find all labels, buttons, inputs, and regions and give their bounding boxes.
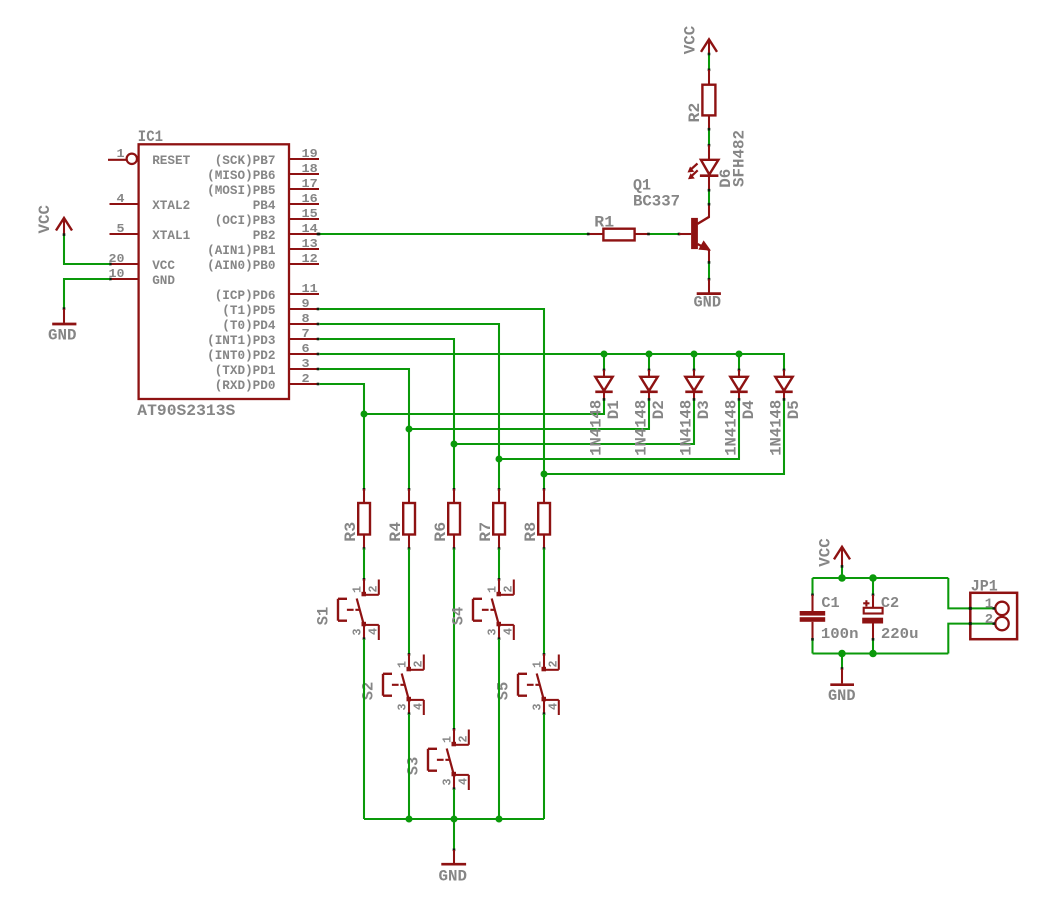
IC1 pin 17 (MOSI)PB5 bbox=[289, 188, 319, 190]
svg-text:3: 3 bbox=[351, 629, 365, 636]
svg-text:D4: D4 bbox=[740, 400, 758, 419]
svg-text:8: 8 bbox=[302, 312, 310, 326]
joints collector bbox=[708, 189, 711, 192]
LED D6 SFH482 bbox=[708, 145, 710, 160]
wire rail to C1 bbox=[811, 578, 813, 595]
wire bus to D4 bbox=[738, 354, 740, 370]
svg-text:5: 5 bbox=[117, 222, 125, 236]
IC1 AT90S2313 body bbox=[139, 144, 289, 399]
diode D3 1N4148 bbox=[693, 369, 696, 372]
svg-text:JP1: JP1 bbox=[971, 577, 998, 595]
svg-text:GND: GND bbox=[694, 294, 722, 312]
IC1 pin 7 (INT1)PD3 bbox=[289, 338, 319, 340]
svg-text:4: 4 bbox=[117, 192, 125, 206]
wire IC pin 14 PB2 to R1 bbox=[320, 233, 589, 235]
junction D5 branch bbox=[541, 471, 548, 478]
resistor R2 bbox=[702, 85, 715, 116]
junction diode bus D2 bbox=[646, 351, 653, 358]
capacitor C2 polarized bbox=[872, 594, 875, 597]
svg-text:VCC: VCC bbox=[36, 205, 54, 234]
diode D4 1N4148 bbox=[738, 369, 741, 372]
svg-text:SFH482: SFH482 bbox=[731, 130, 749, 187]
diode D1 1N4148 bbox=[603, 369, 606, 372]
joint PB2 wire ends bbox=[318, 233, 321, 236]
svg-text:S3: S3 bbox=[405, 757, 423, 776]
svg-text:100n: 100n bbox=[821, 626, 859, 643]
svg-text:20: 20 bbox=[109, 252, 125, 266]
wire PD5 pin9 to R8 column bbox=[320, 309, 545, 489]
svg-text:(AIN0)PB0: (AIN0)PB0 bbox=[207, 258, 276, 273]
svg-text:(T0)PD4: (T0)PD4 bbox=[222, 318, 275, 333]
svg-text:XTAL1: XTAL1 bbox=[152, 228, 190, 243]
wire VCC to IC pin 20 bbox=[64, 234, 110, 264]
svg-text:1: 1 bbox=[117, 147, 125, 161]
wire bus to D1 bbox=[603, 354, 605, 370]
wire R2 to D6 bbox=[708, 129, 710, 145]
wire R6 to S3 bbox=[453, 549, 455, 730]
wire R3 to S1 bbox=[363, 549, 365, 580]
svg-text:D2: D2 bbox=[650, 400, 668, 419]
svg-text:R1: R1 bbox=[594, 213, 614, 231]
IC1 pin 14 PB2 bbox=[289, 233, 319, 235]
wire R1 to Q1 base bbox=[649, 233, 679, 235]
svg-text:2: 2 bbox=[502, 586, 516, 593]
svg-text:S1: S1 bbox=[315, 607, 333, 626]
junction diode bus D1 bbox=[601, 351, 608, 358]
svg-text:(OCI)PB3: (OCI)PB3 bbox=[215, 213, 276, 228]
D6 emission arrow 2 bbox=[690, 170, 698, 177]
joints JP1 pins bbox=[993, 607, 996, 610]
wire PD3 pin7 to R6 column bbox=[320, 339, 455, 489]
svg-text:4: 4 bbox=[502, 628, 516, 635]
svg-text:D3: D3 bbox=[695, 400, 713, 419]
IC1 pin 19 (SCK)PB7 bbox=[289, 158, 319, 160]
wire R4 to S2 bbox=[408, 549, 410, 655]
svg-text:R8: R8 bbox=[522, 522, 540, 542]
wire R8 to S5 bbox=[543, 549, 545, 655]
transistor Q1 BC337 bbox=[691, 218, 698, 249]
IC1 pin 13 (AIN1)PB1 bbox=[289, 248, 319, 250]
wire C1 to bottom rail bbox=[811, 640, 813, 654]
svg-text:RESET: RESET bbox=[152, 153, 190, 168]
junction D2 branch bbox=[406, 426, 413, 433]
joints R1 right bbox=[647, 233, 650, 236]
GND symbol Q1 bbox=[708, 279, 710, 292]
junction bottom bus bbox=[406, 816, 413, 823]
svg-text:D1: D1 bbox=[605, 400, 623, 419]
joints D6 anode bbox=[708, 128, 711, 131]
svg-text:1: 1 bbox=[531, 661, 545, 668]
top rail bbox=[813, 577, 949, 579]
svg-text:1N4148: 1N4148 bbox=[768, 400, 786, 456]
svg-text:17: 17 bbox=[302, 177, 318, 191]
junction diode bus D4 bbox=[736, 351, 743, 358]
connector JP1 box bbox=[970, 593, 1017, 639]
svg-text:1: 1 bbox=[985, 597, 993, 613]
svg-text:R4: R4 bbox=[387, 521, 405, 541]
junction top rail C1-GND bbox=[838, 574, 846, 582]
wire bus to D3 bbox=[693, 354, 695, 370]
IC1 pin 2 (RXD)PD0 bbox=[289, 383, 319, 385]
svg-text:3: 3 bbox=[531, 704, 545, 711]
svg-text:(T1)PD5: (T1)PD5 bbox=[222, 303, 275, 318]
GND symbol right bbox=[841, 667, 844, 670]
bottom bus bbox=[364, 818, 544, 820]
junction bottom rail GND bbox=[838, 650, 846, 658]
wire IC pin 10 to GND bbox=[64, 279, 110, 309]
svg-text:4: 4 bbox=[547, 703, 561, 710]
svg-text:4: 4 bbox=[412, 703, 426, 710]
svg-text:R7: R7 bbox=[477, 522, 495, 542]
bottom rail bbox=[813, 652, 949, 654]
svg-text:13: 13 bbox=[302, 237, 318, 251]
svg-text:BC337: BC337 bbox=[633, 192, 680, 210]
svg-text:2: 2 bbox=[412, 661, 426, 668]
resistor R6 bbox=[453, 488, 456, 491]
diode D5 1N4148 bbox=[783, 369, 786, 372]
svg-text:3: 3 bbox=[486, 629, 500, 636]
resistor R3 bbox=[363, 488, 366, 491]
svg-text:(MISO)PB6: (MISO)PB6 bbox=[207, 168, 276, 183]
svg-text:19: 19 bbox=[302, 147, 318, 161]
svg-text:AT90S2313S: AT90S2313S bbox=[137, 402, 235, 420]
svg-text:18: 18 bbox=[302, 162, 318, 176]
svg-text:16: 16 bbox=[302, 192, 318, 206]
wire PD2 pin6 diode bus bbox=[320, 354, 785, 370]
wire VCC to top rail bbox=[841, 566, 843, 578]
JP1 pin 2 circle bbox=[995, 617, 1008, 630]
wire D5 branch bbox=[544, 399, 784, 474]
svg-text:IC1: IC1 bbox=[138, 128, 163, 146]
switch S5 bbox=[543, 653, 546, 656]
resistor R4 bbox=[408, 488, 411, 491]
svg-text:S4: S4 bbox=[450, 606, 468, 625]
svg-text:2: 2 bbox=[302, 372, 310, 386]
wire S1 to bus bbox=[363, 639, 365, 819]
svg-text:4: 4 bbox=[367, 628, 381, 635]
svg-text:GND: GND bbox=[152, 273, 175, 288]
svg-text:1: 1 bbox=[396, 661, 410, 668]
svg-text:R2: R2 bbox=[686, 103, 704, 123]
IC1 pin 1 RESET bbox=[108, 159, 126, 161]
svg-text:VCC: VCC bbox=[682, 25, 700, 54]
junction bottom bus bbox=[451, 816, 458, 823]
D6 emission arrow 1 bbox=[690, 164, 698, 171]
resistor R7 bbox=[498, 488, 501, 491]
wire rail to C2 bbox=[872, 578, 874, 595]
svg-text:6: 6 bbox=[302, 342, 310, 356]
joints R2 top bbox=[708, 53, 711, 56]
svg-text:R6: R6 bbox=[432, 522, 450, 542]
IC1 pin 4 XTAL2 bbox=[110, 203, 139, 205]
svg-text:D5: D5 bbox=[785, 400, 803, 419]
junction D1 branch bbox=[361, 411, 368, 418]
svg-text:(ICP)PD6: (ICP)PD6 bbox=[215, 288, 276, 303]
svg-text:2: 2 bbox=[985, 612, 993, 628]
svg-text:220u: 220u bbox=[881, 626, 919, 643]
svg-text:1N4148: 1N4148 bbox=[723, 400, 741, 456]
GND symbol left bbox=[63, 307, 66, 310]
svg-text:(SCK)PB7: (SCK)PB7 bbox=[215, 153, 276, 168]
joints emitter bbox=[708, 261, 711, 264]
svg-text:15: 15 bbox=[302, 207, 318, 221]
IC1 pin 18 (MISO)PB6 bbox=[289, 173, 319, 175]
VCC symbol top bbox=[701, 39, 717, 52]
junction top rail C2 bbox=[869, 574, 877, 582]
svg-text:GND: GND bbox=[48, 326, 77, 344]
IC1 pin 3 (TXD)PD1 bbox=[289, 368, 319, 370]
svg-text:7: 7 bbox=[302, 327, 310, 341]
diode D2 1N4148 bbox=[648, 369, 651, 372]
svg-text:1: 1 bbox=[486, 586, 500, 593]
VCC symbol left bbox=[56, 218, 72, 231]
capacitor C1 bbox=[811, 594, 814, 597]
joint VCC left bbox=[63, 233, 66, 236]
svg-text:(INT1)PD3: (INT1)PD3 bbox=[207, 333, 276, 348]
IC1 pin 11 (ICP)PD6 bbox=[289, 293, 319, 295]
wire R7 to S4 bbox=[498, 549, 500, 580]
wire D3 branch bbox=[454, 399, 694, 444]
svg-text:14: 14 bbox=[302, 222, 318, 236]
wire S2 to bus bbox=[408, 714, 410, 819]
wire S3 to bus bbox=[453, 789, 455, 819]
svg-text:(TXD)PD1: (TXD)PD1 bbox=[215, 363, 276, 378]
svg-text:XTAL2: XTAL2 bbox=[152, 198, 190, 213]
resistor R1 bbox=[603, 229, 634, 241]
wire PD1 pin3 to R4 column bbox=[320, 369, 410, 489]
wire S4 to bus bbox=[498, 639, 500, 819]
svg-text:R3: R3 bbox=[342, 522, 360, 542]
wire PD0 pin2 to R3 column bbox=[320, 384, 365, 489]
svg-text:9: 9 bbox=[302, 297, 310, 311]
wire S5 to bus bbox=[543, 714, 545, 819]
svg-text:11: 11 bbox=[302, 282, 318, 296]
VCC symbol right bbox=[834, 547, 850, 560]
IC1 pin 8 (T0)PD4 bbox=[289, 323, 319, 325]
JP1 pin 1 circle bbox=[995, 602, 1008, 615]
wire GND right bbox=[841, 654, 843, 669]
IC1 pin 12 (AIN0)PB0 bbox=[289, 263, 319, 265]
wire D4 branch bbox=[499, 399, 739, 459]
svg-text:10: 10 bbox=[109, 267, 125, 281]
wire D6 to Q1 collector bbox=[708, 190, 710, 204]
switch S3 bbox=[453, 728, 456, 731]
svg-text:2: 2 bbox=[457, 736, 471, 743]
svg-text:(AIN1)PB1: (AIN1)PB1 bbox=[207, 243, 276, 258]
svg-text:(RXD)PD0: (RXD)PD0 bbox=[215, 378, 276, 393]
switch S4 bbox=[498, 578, 501, 581]
svg-text:1N4148: 1N4148 bbox=[678, 400, 696, 456]
switch S1 bbox=[363, 578, 366, 581]
svg-text:S2: S2 bbox=[360, 682, 378, 701]
svg-text:1N4148: 1N4148 bbox=[588, 400, 606, 456]
svg-text:1: 1 bbox=[351, 586, 365, 593]
svg-text:1: 1 bbox=[441, 736, 455, 743]
wire D2 branch bbox=[409, 399, 649, 429]
svg-text:S5: S5 bbox=[495, 682, 513, 701]
wire D1 branch bbox=[364, 399, 604, 414]
svg-text:2: 2 bbox=[547, 661, 561, 668]
svg-text:C2: C2 bbox=[881, 595, 899, 612]
svg-text:(INT0)PD2: (INT0)PD2 bbox=[207, 348, 276, 363]
wire VCC to R2 bbox=[708, 54, 710, 70]
svg-text:3: 3 bbox=[396, 704, 410, 711]
switch S2 bbox=[408, 653, 411, 656]
IC1 pin 5 XTAL1 bbox=[110, 233, 139, 235]
svg-text:12: 12 bbox=[302, 252, 318, 266]
wire bus to GND bbox=[453, 819, 455, 850]
svg-text:3: 3 bbox=[441, 779, 455, 786]
junction D4 branch bbox=[496, 456, 503, 463]
svg-text:VCC: VCC bbox=[152, 258, 175, 273]
wire PD4 pin8 to R7 column bbox=[320, 324, 500, 489]
junction bottom rail C2 bbox=[869, 650, 877, 658]
IC1 pin 16 PB4 bbox=[289, 203, 319, 205]
wire Q1 emitter to GND bbox=[708, 262, 710, 279]
svg-text:2: 2 bbox=[367, 586, 381, 593]
IC1 pin 9 (T1)PD5 bbox=[289, 308, 319, 310]
IC1 pin 6 (INT0)PD2 bbox=[289, 353, 319, 355]
GND symbol bottom bbox=[453, 849, 456, 852]
transistor Q1 base pin bbox=[679, 233, 691, 235]
svg-text:VCC: VCC bbox=[817, 538, 835, 567]
svg-text:(MOSI)PB5: (MOSI)PB5 bbox=[207, 183, 276, 198]
wire C2 to bottom rail bbox=[872, 640, 874, 654]
IC1 pin 10 GND bbox=[110, 278, 139, 280]
svg-text:PB4: PB4 bbox=[253, 198, 276, 213]
svg-text:GND: GND bbox=[828, 687, 856, 705]
svg-text:4: 4 bbox=[457, 778, 471, 785]
junction D3 branch bbox=[451, 441, 458, 448]
IC1 pin 15 (OCI)PB3 bbox=[289, 218, 319, 220]
junction bottom bus bbox=[496, 816, 503, 823]
junction diode bus D3 bbox=[691, 351, 698, 358]
svg-text:PB2: PB2 bbox=[253, 228, 276, 243]
svg-text:C1: C1 bbox=[821, 595, 839, 612]
wire rail to JP1 pin 1 bbox=[948, 578, 993, 608]
joint VCC right bbox=[841, 565, 844, 568]
wire rail to JP1 pin 2 bbox=[948, 624, 993, 654]
svg-text:3: 3 bbox=[302, 357, 310, 371]
svg-text:1N4148: 1N4148 bbox=[633, 400, 651, 456]
IC1 pin 20 VCC bbox=[110, 263, 139, 265]
resistor R8 bbox=[543, 488, 546, 491]
svg-text:GND: GND bbox=[439, 867, 468, 885]
wire bus to D2 bbox=[648, 354, 650, 370]
